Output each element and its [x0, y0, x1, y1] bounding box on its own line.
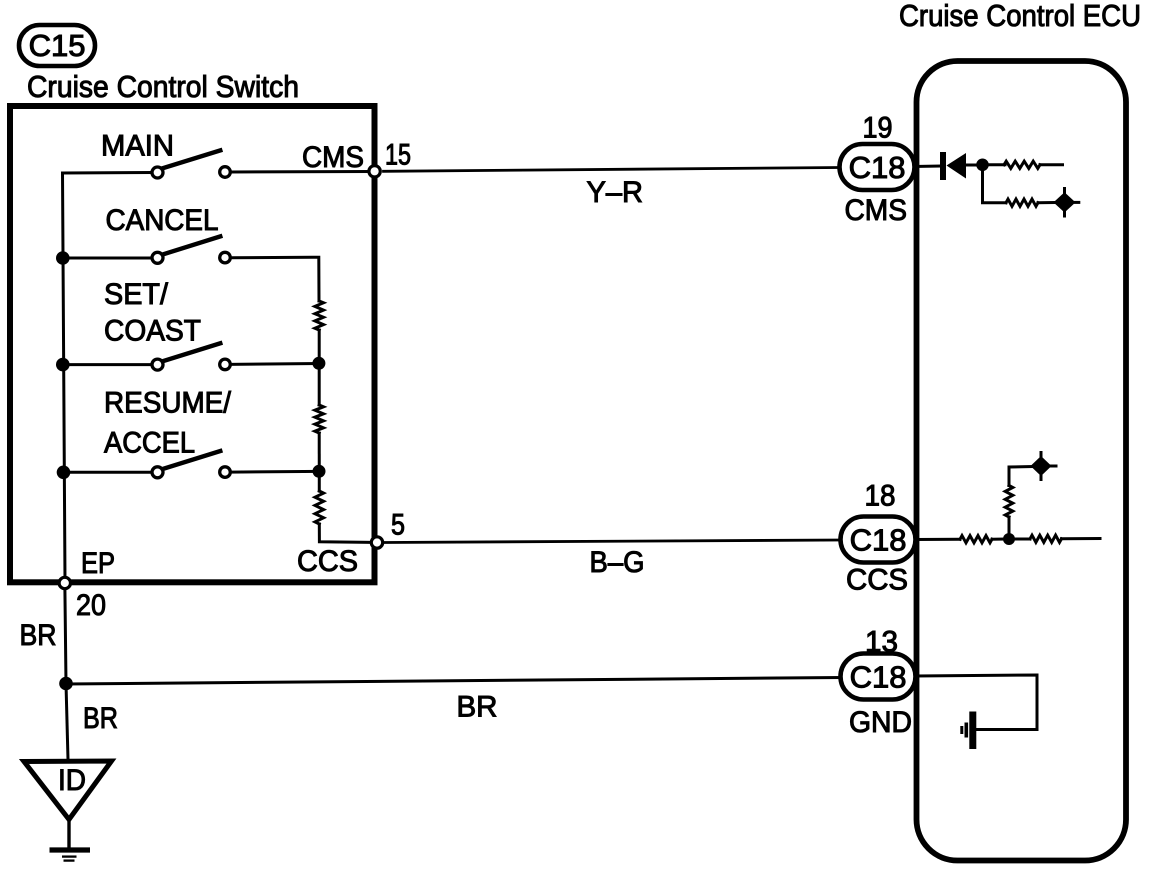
wire: [966, 164, 978, 167]
svg-text:15: 15: [385, 139, 411, 172]
ground: [50, 850, 91, 861]
junction node: [1003, 533, 1015, 545]
svg-text:CCS: CCS: [846, 564, 908, 597]
wire: [231, 362, 319, 366]
lever: [164, 236, 221, 254]
wire: [231, 470, 319, 474]
contact circles: [152, 467, 163, 478]
diode D1: [943, 152, 966, 180]
svg-text:ACCEL: ACCEL: [104, 427, 195, 460]
terminal 5: [371, 537, 382, 548]
connector C15: [19, 25, 95, 66]
wire: [318, 330, 321, 405]
svg-text:B–G: B–G: [590, 546, 645, 579]
wire EP down: [65, 589, 66, 684]
wire: [63, 257, 152, 260]
wire to CCS terminal: [319, 524, 370, 542]
wire Y-R: [384, 168, 840, 172]
svg-text:CMS: CMS: [845, 194, 908, 227]
resistor R3: [315, 491, 324, 524]
svg-text:COAST: COAST: [104, 315, 201, 348]
svg-text:Cruise Control ECU: Cruise Control ECU: [899, 0, 1141, 33]
switch MAIN: [63, 130, 373, 179]
terminal EP: [59, 577, 70, 588]
svg-text:BR: BR: [83, 702, 118, 735]
wire: [915, 675, 1037, 730]
contact circles: [152, 359, 163, 370]
wire: [64, 471, 153, 474]
wire: [1040, 163, 1063, 166]
svg-text:Y–R: Y–R: [587, 176, 644, 209]
svg-text:C18: C18: [850, 660, 907, 695]
svg-text:EP: EP: [81, 547, 115, 580]
resistor (ECU CMS upper): [1004, 161, 1040, 168]
wire BR (horizontal): [66, 678, 842, 685]
junction dot: [56, 358, 70, 372]
contact circles: [152, 252, 163, 263]
wire: [318, 433, 321, 491]
svg-text:SET/: SET/: [104, 278, 169, 311]
lever: [164, 451, 221, 469]
svg-text:CANCEL: CANCEL: [106, 204, 219, 237]
junction node: [59, 677, 73, 691]
ground (ECU): [962, 712, 973, 750]
ground connector ID: [24, 761, 112, 820]
wire: [1062, 537, 1101, 540]
switch SET/COAST: [56, 278, 325, 371]
wire: [914, 165, 940, 169]
svg-text:CCS: CCS: [297, 545, 358, 578]
wire B-G: [385, 540, 840, 543]
wire to ID: [66, 684, 68, 760]
junction dot: [56, 251, 70, 265]
connector C18 pin 18: [841, 517, 916, 563]
wire: [63, 171, 153, 175]
cruise control ECU box: [917, 61, 1127, 861]
svg-text:BR: BR: [20, 619, 57, 652]
wire: [992, 538, 1005, 541]
svg-text:C18: C18: [849, 150, 906, 185]
wire: [915, 538, 960, 541]
junction dot: [312, 357, 325, 370]
svg-text:ID: ID: [58, 764, 86, 797]
wire: [983, 163, 1006, 166]
left bus wire: [63, 173, 66, 581]
resistor (ECU CCS right): [1030, 535, 1062, 542]
junction dot: [57, 466, 71, 480]
wire: [1038, 201, 1054, 204]
resistor (ECU CCS vertical): [1005, 486, 1013, 518]
wire: [1009, 538, 1030, 541]
node: [976, 159, 989, 172]
lever: [164, 343, 221, 361]
wire: [1008, 517, 1011, 539]
svg-text:C15: C15: [29, 28, 86, 63]
wire: [231, 170, 373, 174]
wire: [63, 363, 152, 366]
wire: [1009, 467, 1032, 486]
svg-text:RESUME/: RESUME/: [104, 387, 232, 420]
wire: [67, 820, 70, 848]
resistor (ECU CCS left): [960, 536, 992, 543]
svg-text:CMS: CMS: [302, 141, 364, 174]
node diamond (CCS): [1031, 453, 1057, 480]
svg-text:C18: C18: [850, 523, 907, 558]
switch RESUME/ACCEL: [57, 387, 326, 480]
svg-text:20: 20: [76, 589, 106, 622]
connector C18 pin 19: [840, 144, 915, 190]
connector C18 pin 13: [841, 654, 916, 700]
svg-text:MAIN: MAIN: [101, 130, 174, 163]
wire to resistor bus: [231, 257, 320, 301]
switch CANCEL: [56, 204, 319, 301]
resistor R2: [315, 405, 324, 433]
terminal 15: [369, 166, 380, 177]
svg-text:5: 5: [391, 509, 405, 542]
svg-text:19: 19: [863, 112, 893, 145]
junction dot: [313, 465, 326, 478]
svg-text:BR: BR: [457, 691, 498, 724]
svg-text:GND: GND: [849, 706, 912, 739]
svg-text:18: 18: [865, 480, 896, 513]
wire: [983, 165, 1007, 203]
cruise control switch box: [10, 106, 375, 582]
lever: [164, 150, 221, 168]
resistor R1: [315, 301, 324, 330]
resistor (ECU CMS lower): [1006, 199, 1038, 206]
node diamond (CMS): [1054, 189, 1079, 217]
contact circles: [152, 167, 163, 178]
svg-text:Cruise Control Switch: Cruise Control Switch: [27, 69, 299, 104]
